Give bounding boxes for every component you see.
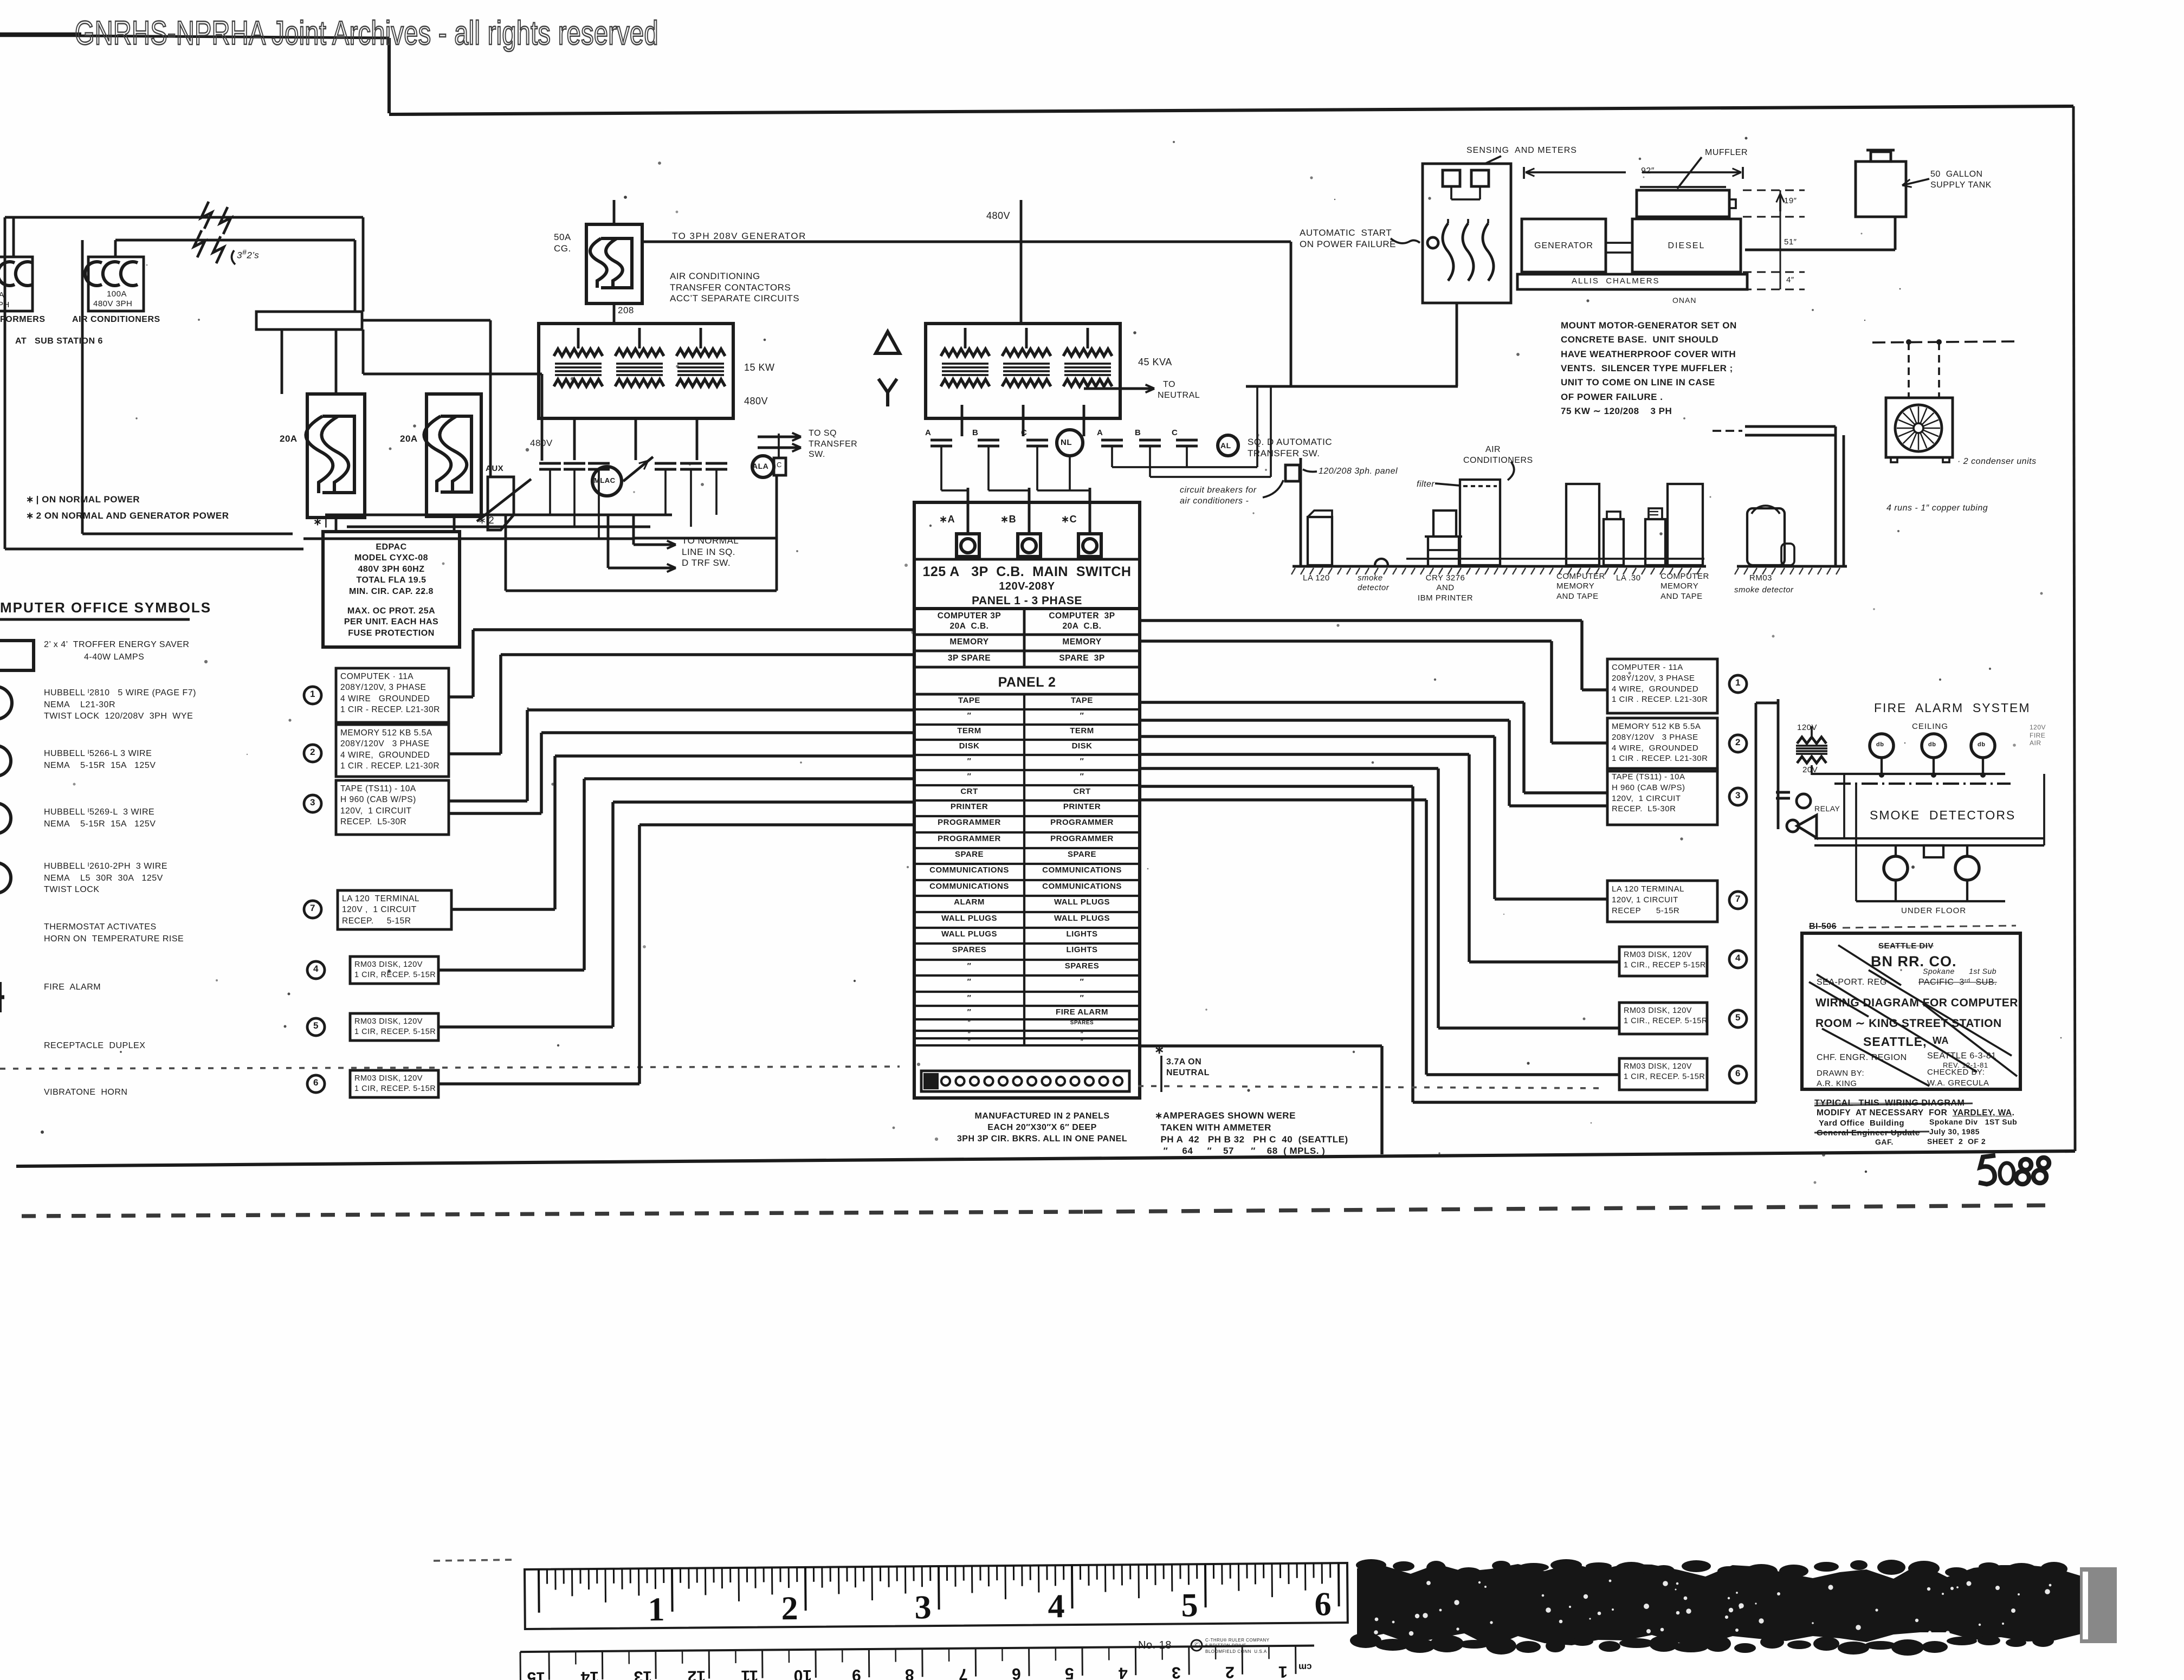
svg-text:4: 4 <box>1048 1588 1065 1625</box>
svg-text:14: 14 <box>580 1668 599 1680</box>
svg-text:8: 8 <box>905 1665 914 1680</box>
svg-text:3: 3 <box>914 1589 932 1626</box>
svg-text:6: 6 <box>1012 1665 1021 1680</box>
svg-text:9: 9 <box>852 1666 861 1680</box>
svg-text:cm: cm <box>1298 1662 1312 1672</box>
svg-text:15: 15 <box>527 1669 546 1680</box>
svg-text:5: 5 <box>1065 1664 1074 1680</box>
svg-text:13: 13 <box>634 1668 652 1680</box>
svg-text:11: 11 <box>741 1667 758 1680</box>
svg-text:4: 4 <box>1119 1664 1128 1680</box>
svg-text:12: 12 <box>688 1667 706 1680</box>
svg-text:2: 2 <box>781 1590 798 1627</box>
svg-text:5: 5 <box>1181 1587 1198 1624</box>
svg-text:3: 3 <box>1172 1663 1181 1680</box>
svg-text:1: 1 <box>1278 1663 1288 1680</box>
svg-text:6: 6 <box>1314 1586 1332 1623</box>
svg-text:7: 7 <box>959 1665 968 1680</box>
svg-text:10: 10 <box>794 1666 812 1680</box>
svg-text:2: 2 <box>1225 1663 1235 1680</box>
svg-text:1: 1 <box>648 1591 665 1628</box>
